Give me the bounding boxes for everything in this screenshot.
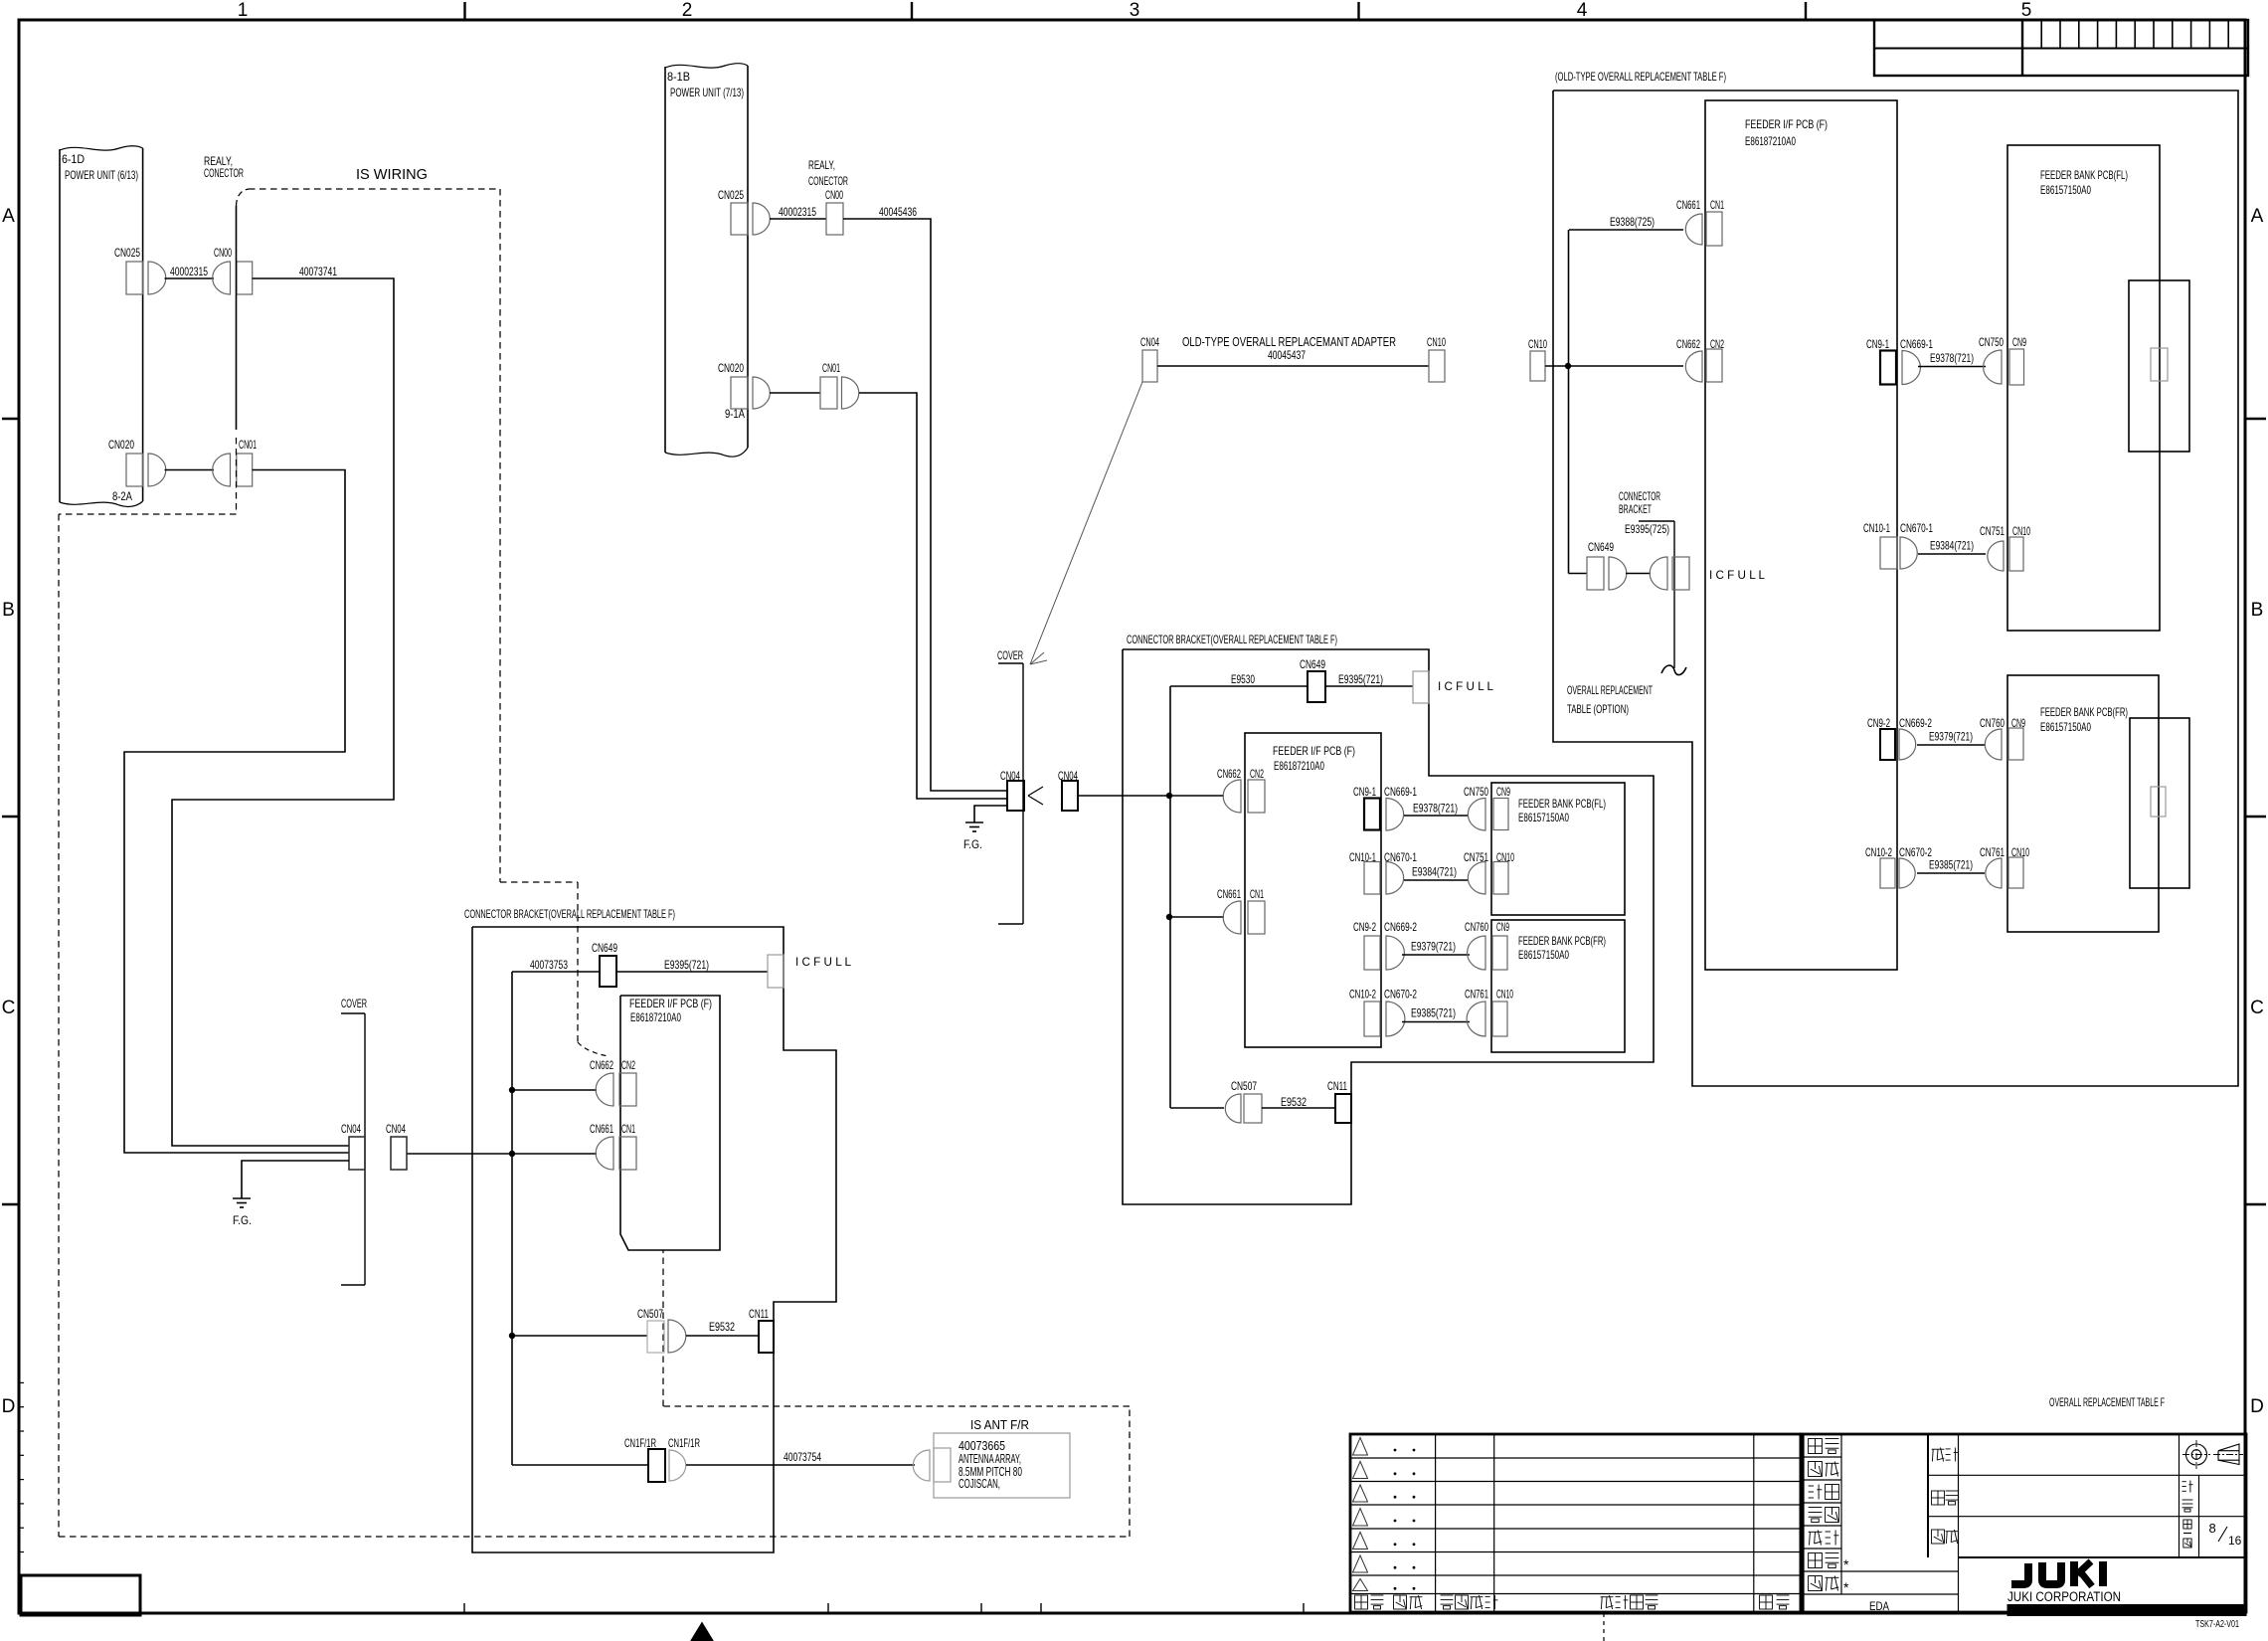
svg-text:*: * bbox=[1843, 1579, 1849, 1595]
svg-text:E9378(721): E9378(721) bbox=[1413, 802, 1458, 816]
svg-text:*: * bbox=[1843, 1556, 1849, 1572]
svg-text:CN9: CN9 bbox=[1496, 785, 1510, 799]
old-type table outline bbox=[1553, 91, 2238, 1086]
node: CN661 junction (bottom-left) bbox=[509, 1151, 515, 1157]
svg-text:CN662: CN662 bbox=[1217, 767, 1241, 781]
svg-text:A: A bbox=[2251, 206, 2264, 227]
svg-text:E86187210A0: E86187210A0 bbox=[1745, 134, 1796, 148]
connector CN04 (cover, middle) bbox=[1000, 769, 1024, 811]
FR edge connector box bbox=[2130, 718, 2189, 888]
svg-text:8-1B: 8-1B bbox=[667, 70, 690, 84]
node: CN662 junction (bottom-left) bbox=[509, 1087, 515, 1093]
svg-text:E9395(721): E9395(721) bbox=[1338, 672, 1383, 686]
svg-text:CN1: CN1 bbox=[1710, 198, 1724, 212]
作成 row label bbox=[1809, 1531, 1823, 1533]
svg-text:E86157150A0: E86157150A0 bbox=[1518, 811, 1569, 824]
wire to CN662 (bottom-left) bbox=[512, 1089, 597, 1091]
connector CN10-2/CN670-2 (right) bbox=[1865, 845, 1932, 888]
IS wiring dashed boundary left/bottom bbox=[59, 438, 1130, 1537]
svg-text:CN04: CN04 bbox=[386, 1122, 406, 1136]
wire CN01 to CN04 bbox=[124, 470, 349, 1154]
wire E9378(721) (right) bbox=[1918, 351, 1986, 367]
svg-text:CONNECTOR BRACKET(OVERALL REPL: CONNECTOR BRACKET(OVERALL REPLACEMENT TA… bbox=[1127, 633, 1337, 646]
svg-text:OVERALL REPLACEMENT: OVERALL REPLACEMENT bbox=[1567, 683, 1653, 697]
svg-text:CN1F/1R: CN1F/1R bbox=[624, 1436, 656, 1450]
sheet alignment triangle bbox=[691, 1623, 713, 1641]
類似 row label bbox=[1809, 1576, 1823, 1591]
svg-text:I C F U L L: I C F U L L bbox=[1438, 679, 1493, 693]
connector CN00 relay (6-1D) bbox=[213, 246, 253, 294]
svg-text:E86187210A0: E86187210A0 bbox=[630, 1010, 681, 1024]
wire E9379(721) (middle) bbox=[1402, 940, 1470, 956]
svg-text:C: C bbox=[2, 998, 16, 1018]
wire 40045437 bbox=[1157, 365, 1429, 367]
svg-text:8: 8 bbox=[2209, 1521, 2216, 1536]
svg-text:CN2: CN2 bbox=[621, 1058, 635, 1072]
connector IS ANT bbox=[913, 1448, 951, 1482]
svg-text:CN2: CN2 bbox=[1250, 767, 1264, 781]
connector CN662/CN2 (middle) bbox=[1217, 767, 1265, 813]
svg-text:FEEDER BANK PCB(FL): FEEDER BANK PCB(FL) bbox=[2040, 168, 2128, 182]
svg-text:B: B bbox=[2, 600, 15, 621]
connector CN761/CN10 (middle) bbox=[1465, 988, 1513, 1037]
wire 40073754 bbox=[686, 1450, 915, 1465]
connector CN9-2/CN669-2 (right) bbox=[1867, 716, 1932, 760]
IS ANT F/R box bbox=[934, 1433, 1070, 1498]
svg-text:CONECTOR: CONECTOR bbox=[808, 174, 848, 188]
arrow to CN04 bbox=[1028, 787, 1043, 805]
svg-text:POWER UNIT (6/13): POWER UNIT (6/13) bbox=[65, 168, 138, 182]
node: CN507 junction (bottom-left) bbox=[509, 1333, 515, 1339]
svg-text:JUKI CORPORATION: JUKI CORPORATION bbox=[2007, 1589, 2121, 1604]
connector CN1F/1R pair bbox=[624, 1436, 700, 1482]
connector CN9-1/CN669-1 (right) bbox=[1866, 337, 1933, 385]
ground symbol F.G. (middle) bbox=[963, 822, 983, 851]
svg-text:FEEDER BANK PCB(FR): FEEDER BANK PCB(FR) bbox=[1518, 934, 1606, 948]
svg-text:CN020: CN020 bbox=[718, 361, 744, 375]
connector CN020 (8-1B) bbox=[718, 361, 770, 409]
connector CN662/CN2 (bottom-left) bbox=[590, 1058, 636, 1106]
connector CN750/CN9 (middle) bbox=[1464, 785, 1510, 830]
svg-text:E9385(721): E9385(721) bbox=[1929, 858, 1973, 872]
svg-text:6-1D: 6-1D bbox=[62, 152, 85, 166]
svg-text:CN750: CN750 bbox=[1464, 785, 1488, 799]
wire CN01 to CN04 (8-1B) bbox=[859, 393, 1007, 799]
svg-text:D: D bbox=[2250, 1396, 2264, 1417]
FR edge connector pin bbox=[2151, 787, 2166, 817]
COVER symbol (bottom-left) bbox=[341, 997, 367, 1285]
connector CN9-2/CN669-2 (middle) bbox=[1353, 920, 1417, 970]
connector CN04 (cover, bottom-left) bbox=[341, 1122, 365, 1170]
connector CN649 (bottom-left) bbox=[592, 941, 617, 987]
connector CN649 pair (right) bbox=[1569, 540, 1690, 590]
svg-text:E9385(721): E9385(721) bbox=[1411, 1006, 1456, 1020]
svg-text:4: 4 bbox=[1577, 0, 1588, 21]
svg-text:CN01: CN01 bbox=[239, 438, 257, 452]
製図 row label bbox=[1809, 1507, 1823, 1509]
connector CN10 (adapter out) bbox=[1427, 335, 1446, 382]
connector CN507 (bottom-left) bbox=[637, 1307, 686, 1353]
svg-text:E9388(725): E9388(725) bbox=[1610, 215, 1655, 229]
connector CN04 (adapter) bbox=[1140, 335, 1159, 382]
svg-text:COVER: COVER bbox=[341, 997, 367, 1010]
svg-text:CN9: CN9 bbox=[1496, 920, 1509, 934]
svg-text:F.G.: F.G. bbox=[233, 1213, 252, 1227]
ground wire F.G. (middle) bbox=[974, 806, 1007, 822]
svg-text:40045436: 40045436 bbox=[879, 205, 917, 219]
svg-text:40073753: 40073753 bbox=[530, 958, 568, 972]
connector CN662/CN2 (right) bbox=[1676, 337, 1724, 382]
svg-text:40002315: 40002315 bbox=[170, 265, 208, 278]
connector CN9-1/CN669-1 (middle) bbox=[1353, 785, 1417, 830]
svg-text:TSK7-A2-V01: TSK7-A2-V01 bbox=[2195, 1619, 2239, 1630]
svg-text:E9379(721): E9379(721) bbox=[1411, 940, 1456, 954]
revision history table bbox=[1350, 1434, 1801, 1612]
feeder bank PCB(FL) box (middle) bbox=[1491, 783, 1625, 915]
node: CN10 junction (right) bbox=[1565, 363, 1571, 369]
wire E9530 bbox=[1170, 672, 1308, 1108]
title block main table bbox=[1801, 1434, 2246, 1612]
wire E9384(721) (middle) bbox=[1404, 865, 1469, 881]
wire to CN507 (middle) bbox=[1170, 1107, 1224, 1109]
svg-text:REALY,: REALY, bbox=[808, 158, 835, 172]
wire E9395(721) (middle) bbox=[1325, 672, 1413, 686]
svg-text:CN11: CN11 bbox=[749, 1307, 769, 1321]
svg-text:CN750: CN750 bbox=[1979, 335, 2004, 349]
svg-text:CN649: CN649 bbox=[1300, 657, 1325, 671]
svg-text:FEEDER I/F PCB (F): FEEDER I/F PCB (F) bbox=[1745, 117, 1828, 131]
feeder bank PCB(FR) box (middle) bbox=[1491, 920, 1625, 1052]
設計 row label bbox=[1809, 1485, 1814, 1487]
connector CN750/CN9 (right) bbox=[1979, 335, 2026, 385]
svg-text:3: 3 bbox=[1130, 0, 1140, 21]
svg-text:E86157150A0: E86157150A0 bbox=[1518, 948, 1569, 962]
FL edge connector box bbox=[2129, 280, 2189, 452]
svg-text:CN9-2: CN9-2 bbox=[1353, 920, 1376, 934]
svg-text:FEEDER I/F PCB (F): FEEDER I/F PCB (F) bbox=[1273, 744, 1355, 758]
svg-text:OLD-TYPE OVERALL REPLACEMANT A: OLD-TYPE OVERALL REPLACEMANT ADAPTER bbox=[1182, 335, 1396, 349]
svg-text:EDA: EDA bbox=[1869, 1599, 1889, 1613]
svg-text:CN9: CN9 bbox=[2012, 335, 2026, 349]
svg-text:CN1F/1R: CN1F/1R bbox=[668, 1436, 700, 1450]
svg-text:CN662: CN662 bbox=[590, 1058, 613, 1072]
svg-text:CN661: CN661 bbox=[590, 1122, 613, 1136]
connector CN01 relay (8-1B) bbox=[820, 361, 859, 409]
svg-text:CN025: CN025 bbox=[114, 246, 140, 260]
wire 40002315 (8-1B) bbox=[770, 218, 826, 220]
svg-text:CN04: CN04 bbox=[341, 1122, 361, 1136]
connector CN649 (middle) bbox=[1300, 657, 1325, 702]
ground symbol F.G. (bottom-left) bbox=[233, 1198, 252, 1227]
wire E9379(721) (right) bbox=[1917, 730, 1985, 746]
svg-text:CN04: CN04 bbox=[1140, 335, 1159, 349]
feeder I/F PCB (F) box (right) bbox=[1705, 100, 1897, 970]
svg-text:CN669-1: CN669-1 bbox=[1900, 337, 1933, 351]
svg-text:CN669-1: CN669-1 bbox=[1384, 785, 1417, 799]
svg-text:E9384(721): E9384(721) bbox=[1930, 539, 1974, 553]
検図 row label bbox=[1809, 1462, 1823, 1477]
wire E9378(721) (middle) bbox=[1404, 802, 1469, 817]
svg-text:E9532: E9532 bbox=[1281, 1095, 1307, 1109]
connector CN760/CN9 (right) bbox=[1980, 716, 2025, 760]
IS wiring dashed boundary top bbox=[237, 189, 610, 1056]
connector CN020 (6-1D) bbox=[108, 438, 166, 486]
label REALY CONECTOR (6-1D) bbox=[204, 154, 244, 180]
wire E9384(721) (right) bbox=[1918, 539, 1986, 555]
svg-text:40073741: 40073741 bbox=[299, 265, 337, 278]
svg-text:CN00: CN00 bbox=[214, 246, 232, 260]
svg-text:CN01: CN01 bbox=[822, 361, 840, 375]
svg-text:CN10: CN10 bbox=[1427, 335, 1446, 349]
品番 label bbox=[1932, 1491, 1945, 1505]
svg-text:POWER UNIT (7/13): POWER UNIT (7/13) bbox=[670, 86, 744, 99]
svg-text:CN10-2: CN10-2 bbox=[1865, 845, 1892, 859]
svg-text:CN1: CN1 bbox=[1250, 887, 1264, 901]
JUKI logo bbox=[2007, 1561, 2246, 1616]
svg-text:CN761: CN761 bbox=[1980, 845, 2005, 859]
svg-text:CONECTOR: CONECTOR bbox=[204, 166, 244, 180]
svg-text:2: 2 bbox=[682, 0, 693, 21]
svg-text:A: A bbox=[2, 206, 15, 227]
wire E9532 (bottom-left) bbox=[686, 1320, 759, 1336]
break squiggle arrow bbox=[1661, 665, 1686, 675]
svg-text:CN649: CN649 bbox=[1588, 540, 1614, 554]
svg-text:F.G.: F.G. bbox=[963, 837, 982, 851]
svg-text:ANTENNA ARRAY,: ANTENNA ARRAY, bbox=[959, 1452, 1021, 1466]
connector CN025 (6-1D) bbox=[114, 246, 166, 294]
svg-text:FEEDER BANK PCB(FL): FEEDER BANK PCB(FL) bbox=[1518, 797, 1606, 811]
wire 40002315 (6-1D) bbox=[165, 277, 215, 279]
label CONNECTOR BRACKET (right) bbox=[1619, 489, 1660, 516]
svg-text:TABLE (OPTION): TABLE (OPTION) bbox=[1567, 702, 1629, 716]
svg-text:IS WIRING: IS WIRING bbox=[356, 166, 428, 183]
COVER symbol (middle) bbox=[997, 648, 1023, 924]
svg-text:CN670-1: CN670-1 bbox=[1900, 521, 1933, 535]
svg-text:CN751: CN751 bbox=[1980, 524, 2005, 538]
svg-text:40073754: 40073754 bbox=[784, 1450, 821, 1464]
IC FULL connector (middle) bbox=[1413, 671, 1493, 703]
power unit 8-1B box bbox=[665, 64, 748, 456]
label OLD-TYPE OVERALL REPLACEMANT ADAPTER bbox=[1182, 335, 1396, 362]
svg-text:CN9-1: CN9-1 bbox=[1353, 785, 1376, 799]
connector CN00 relay (8-1B) bbox=[825, 188, 843, 235]
relay connector line (6-1D) bbox=[236, 206, 238, 430]
connector CN10-1/CN670-1 (right) bbox=[1863, 521, 1933, 569]
bottom-left stamp box bbox=[21, 1575, 140, 1615]
connector CN751/CN10 (right) bbox=[1980, 524, 2030, 571]
connector CN661/CN1 (bottom-left) bbox=[590, 1122, 636, 1170]
connector CN11 (middle) bbox=[1327, 1079, 1351, 1123]
connector CN10-2/CN670-2 (middle) bbox=[1349, 988, 1417, 1037]
connector bracket outline (middle) bbox=[1123, 649, 1654, 1204]
power unit 6-1D box bbox=[60, 146, 143, 507]
svg-text:CN9-1: CN9-1 bbox=[1866, 337, 1889, 351]
svg-text:E86157150A0: E86157150A0 bbox=[2040, 183, 2091, 197]
ground wire F.G. (bottom-left) bbox=[242, 1161, 349, 1198]
svg-text:E9378(721): E9378(721) bbox=[1930, 351, 1974, 365]
svg-text:B: B bbox=[2251, 600, 2264, 621]
svg-text:16: 16 bbox=[2228, 1534, 2242, 1548]
svg-text:IS ANT F/R: IS ANT F/R bbox=[970, 1418, 1029, 1432]
connector CN025 (8-1B) bbox=[718, 188, 770, 235]
connector CN10 input (right) bbox=[1528, 337, 1547, 381]
svg-text:CN661: CN661 bbox=[1676, 198, 1700, 212]
svg-text:D: D bbox=[2, 1396, 16, 1417]
svg-text:COVER: COVER bbox=[997, 648, 1023, 662]
svg-text:CN761: CN761 bbox=[1465, 988, 1488, 1002]
svg-text:CN649: CN649 bbox=[592, 941, 617, 955]
FL edge connector pin bbox=[2151, 348, 2168, 381]
svg-text:CN11: CN11 bbox=[1327, 1079, 1347, 1093]
revision strip table bbox=[1874, 20, 2248, 76]
svg-text:CN760: CN760 bbox=[1465, 920, 1488, 934]
svg-text:CN661: CN661 bbox=[1217, 887, 1241, 901]
svg-text:CN670-2: CN670-2 bbox=[1899, 845, 1932, 859]
svg-text:CN507: CN507 bbox=[1231, 1079, 1257, 1093]
wire 40045436 bbox=[843, 205, 1007, 791]
leader line from CN04 to cover arrow bbox=[1030, 382, 1142, 664]
svg-text:E9530: E9530 bbox=[1231, 672, 1255, 686]
svg-text:CN669-2: CN669-2 bbox=[1899, 716, 1932, 730]
svg-text:40045437: 40045437 bbox=[1268, 348, 1306, 362]
fold mark bbox=[1603, 1613, 1605, 1641]
svg-text:CN10-1: CN10-1 bbox=[1863, 521, 1890, 535]
svg-text:CN020: CN020 bbox=[108, 438, 134, 452]
wire E9385(721) (right) bbox=[1917, 858, 1985, 874]
svg-text:OVERALL REPLACEMENT TABLE F: OVERALL REPLACEMENT TABLE F bbox=[2049, 1395, 2165, 1409]
wire to CN507 (bottom-left) bbox=[512, 1335, 647, 1337]
svg-text:CN10: CN10 bbox=[2012, 524, 2030, 538]
svg-text:CN00: CN00 bbox=[825, 188, 843, 202]
svg-text:5: 5 bbox=[2021, 0, 2032, 21]
svg-text:CN1: CN1 bbox=[621, 1122, 635, 1136]
IC FULL connector (bottom-left) bbox=[768, 955, 851, 988]
feeder bank PCB(FL) box (right) bbox=[2007, 145, 2160, 631]
wire CN04 to CN662 bbox=[1078, 795, 1224, 797]
connector CN751/CN10 (middle) bbox=[1464, 850, 1514, 894]
wire E9532 (middle) bbox=[1262, 1095, 1335, 1109]
svg-text:CONNECTOR BRACKET(OVERALL REPL: CONNECTOR BRACKET(OVERALL REPLACEMENT TA… bbox=[464, 907, 675, 921]
svg-text:CN9-2: CN9-2 bbox=[1867, 716, 1890, 730]
wire CN020-CN01 (8-1B) bbox=[770, 392, 820, 394]
svg-text:I C F U L L: I C F U L L bbox=[795, 955, 851, 969]
feeder I/F PCB (F) box (bottom-left) bbox=[620, 996, 720, 1250]
svg-text:CN662: CN662 bbox=[1676, 337, 1700, 351]
承認 row label bbox=[1809, 1439, 1823, 1454]
型式 label bbox=[1932, 1448, 1945, 1450]
connector CN10-1/CN670-1 (middle) bbox=[1349, 850, 1417, 894]
svg-text:E86157150A0: E86157150A0 bbox=[2040, 720, 2091, 734]
尺度 label bbox=[2182, 1481, 2186, 1483]
wire to CN1F/1R bbox=[512, 1464, 648, 1466]
first angle projection symbol bbox=[2182, 1440, 2243, 1469]
svg-text:E9532: E9532 bbox=[709, 1320, 735, 1334]
connector CN661/CN1 (right) bbox=[1676, 198, 1724, 246]
保管 row label bbox=[1809, 1553, 1823, 1568]
svg-text:FEEDER BANK PCB(FR): FEEDER BANK PCB(FR) bbox=[2040, 705, 2128, 719]
svg-text:E86187210A0: E86187210A0 bbox=[1274, 759, 1324, 773]
ページ label bbox=[2183, 1520, 2191, 1529]
wire E9388(725) bbox=[1569, 215, 1684, 574]
connector CN507 (middle) bbox=[1225, 1079, 1262, 1123]
svg-text:FEEDER I/F PCB (F): FEEDER I/F PCB (F) bbox=[629, 997, 712, 1010]
wire E9395(725) flag bbox=[1625, 521, 1674, 668]
feeder bank PCB(FR) box (right) bbox=[2007, 675, 2159, 932]
svg-text:CN025: CN025 bbox=[718, 188, 744, 202]
label OVERALL REPLACEMENT TABLE (OPTION) bbox=[1567, 683, 1653, 716]
svg-text:40073665: 40073665 bbox=[959, 1439, 1005, 1453]
connector CN04 mate (bottom-left) bbox=[386, 1122, 407, 1170]
svg-text:CN670-2: CN670-2 bbox=[1384, 988, 1417, 1002]
wire CN10 to CN662 (right) bbox=[1545, 365, 1683, 367]
svg-text:CN507: CN507 bbox=[637, 1307, 663, 1321]
svg-text:BRACKET: BRACKET bbox=[1619, 502, 1652, 516]
connector CN04 mate (middle) bbox=[1058, 769, 1078, 811]
svg-text:COJISCAN,: COJISCAN, bbox=[959, 1477, 1000, 1491]
connector bracket outline (bottom-left) bbox=[472, 927, 836, 1552]
connector CN01 relay (6-1D) bbox=[213, 438, 257, 486]
svg-text:E9395(725): E9395(725) bbox=[1625, 522, 1669, 536]
feeder I/F PCB (F) box (middle) bbox=[1245, 733, 1381, 1047]
svg-text:(OLD-TYPE OVERALL REPLACEMENT: (OLD-TYPE OVERALL REPLACEMENT TABLE F) bbox=[1555, 70, 1726, 84]
wire E9385(721) (middle) bbox=[1402, 1006, 1470, 1022]
svg-text:CN10: CN10 bbox=[1496, 988, 1513, 1002]
svg-text:E9379(721): E9379(721) bbox=[1929, 730, 1973, 744]
wire CN020-CN01 bbox=[165, 469, 215, 471]
wire 40073753 bbox=[512, 958, 600, 1465]
svg-text:CN760: CN760 bbox=[1980, 716, 2005, 730]
svg-text:C: C bbox=[2250, 998, 2264, 1018]
svg-text:CN669-2: CN669-2 bbox=[1384, 920, 1417, 934]
page number 8/16 bbox=[2209, 1521, 2242, 1548]
svg-text:CN10: CN10 bbox=[1528, 337, 1547, 351]
svg-text:8-2A: 8-2A bbox=[112, 489, 132, 503]
svg-text:E9395(721): E9395(721) bbox=[664, 958, 709, 972]
connector CN11 (bottom-left) bbox=[749, 1307, 774, 1353]
connector CN760/CN9 (middle) bbox=[1465, 920, 1509, 970]
wire E9395(721) (bottom-left) bbox=[616, 958, 768, 972]
wire CN04 to CN661 (bottom-left) bbox=[407, 1153, 597, 1155]
connector CN661/CN1 (middle) bbox=[1217, 887, 1265, 934]
label REALY CONECTOR (8-1B) bbox=[808, 158, 848, 188]
svg-text:I C F U L L: I C F U L L bbox=[1709, 568, 1765, 582]
wire 40073741 bbox=[172, 265, 394, 1146]
svg-text:40002315: 40002315 bbox=[779, 205, 816, 219]
node: CN662 junction (middle) bbox=[1166, 793, 1172, 799]
svg-text:E9384(721): E9384(721) bbox=[1412, 865, 1457, 879]
svg-text:1: 1 bbox=[238, 0, 249, 21]
品名 label bbox=[1932, 1530, 1945, 1544]
svg-text:CN10-2: CN10-2 bbox=[1349, 988, 1376, 1002]
wire junction to CN661 bbox=[1169, 916, 1224, 918]
node: CN661 junction (middle) bbox=[1166, 914, 1172, 920]
connector CN761/CN10 (right) bbox=[1980, 845, 2029, 888]
svg-text:CONNECTOR: CONNECTOR bbox=[1619, 489, 1660, 503]
